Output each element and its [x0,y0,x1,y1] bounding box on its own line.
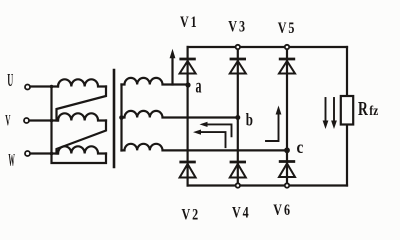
svg-text:V6: V6 [273,203,290,220]
svg-text:W: W [8,150,14,170]
svg-text:V5: V5 [278,21,295,38]
svg-text:V2: V2 [182,207,199,224]
svg-text:V4: V4 [232,205,249,222]
svg-text:V3: V3 [228,19,245,36]
svg-text:b: b [246,111,253,130]
svg-text:U: U [7,72,13,91]
svg-text:fz: fz [369,103,378,118]
svg-text:V1: V1 [180,15,197,32]
svg-text:V: V [5,111,10,129]
svg-text:c: c [297,137,304,157]
svg-text:a: a [196,74,202,97]
svg-text:R: R [358,97,368,119]
